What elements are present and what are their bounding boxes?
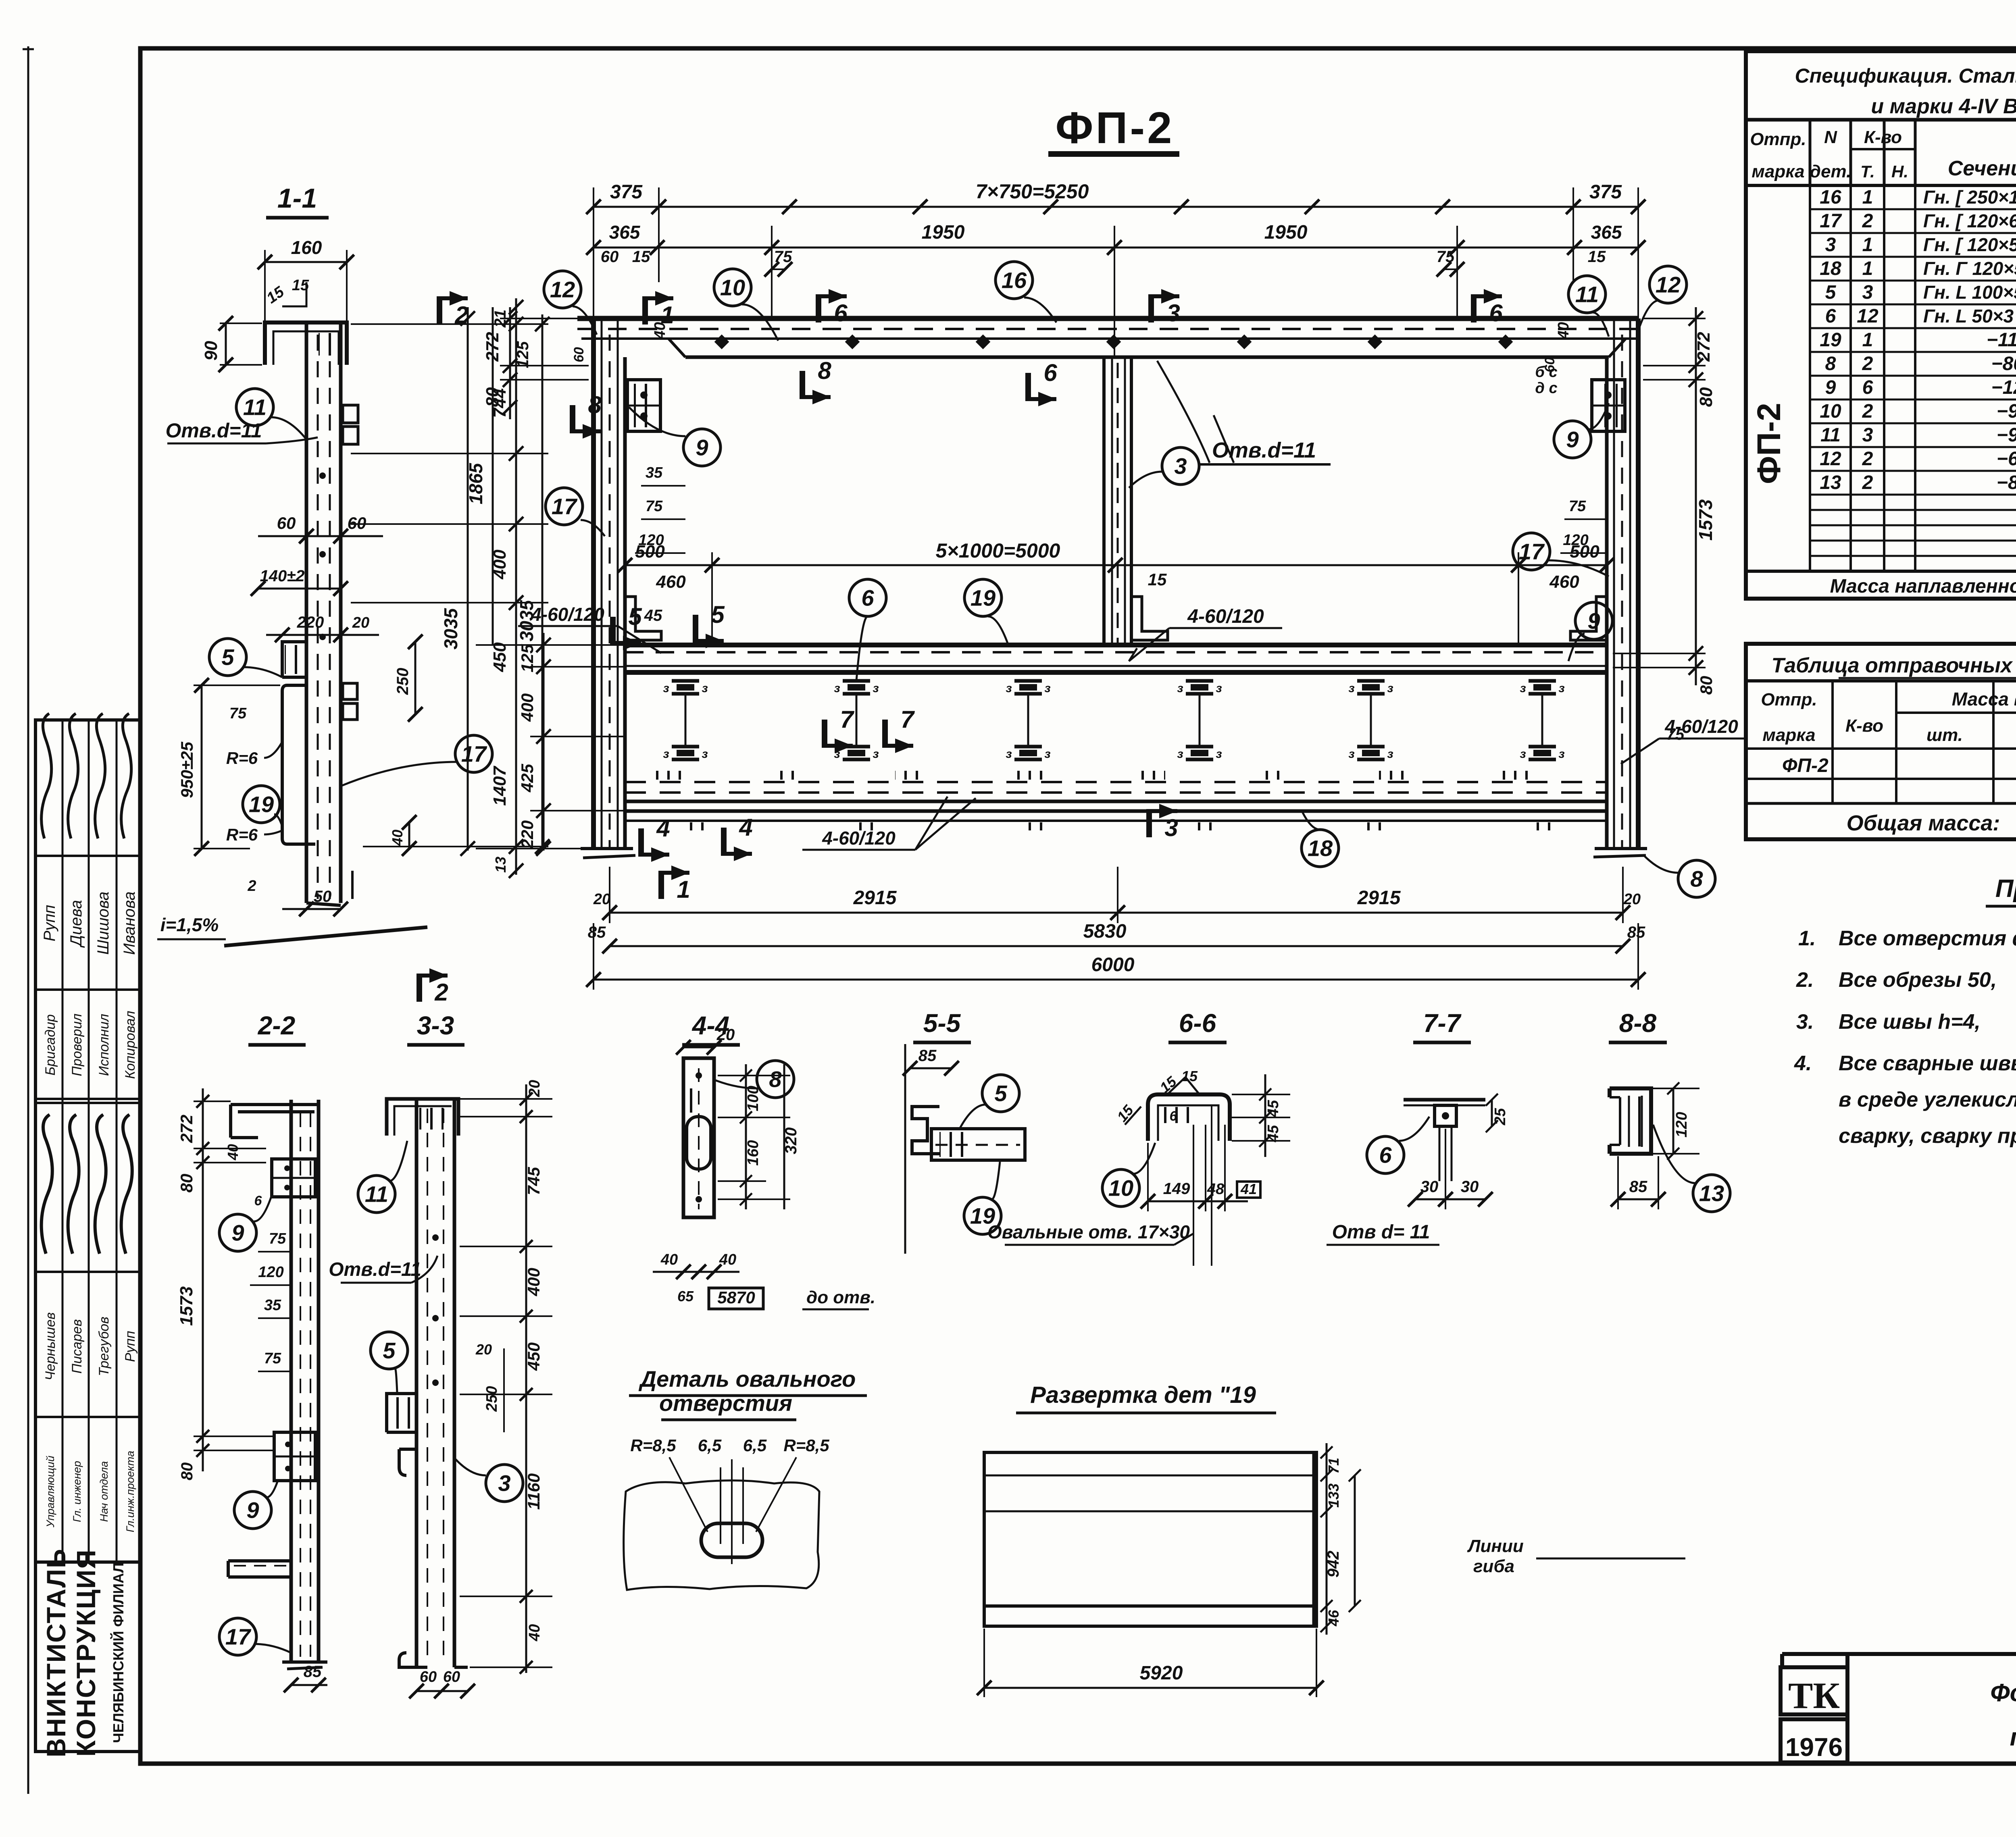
svg-text:25: 25 bbox=[1492, 1108, 1509, 1126]
svg-text:11: 11 bbox=[1820, 424, 1841, 446]
svg-text:220: 220 bbox=[518, 820, 537, 849]
svg-text:до отв.: до отв. bbox=[806, 1288, 875, 1307]
svg-text:Бригадир: Бригадир bbox=[43, 1014, 58, 1076]
svg-text:Фонарная панель ФП-2: Фонарная панель ФП-2 bbox=[1990, 1679, 2016, 1707]
rivet marks on top chord bbox=[714, 335, 729, 350]
right post top angle bbox=[1570, 597, 1607, 640]
spec row 18 bbox=[1810, 280, 2016, 282]
svg-text:Писарев: Писарев bbox=[69, 1319, 85, 1373]
svg-text:2: 2 bbox=[434, 979, 448, 1006]
right dim chain bbox=[1695, 307, 1697, 685]
bolted plate right post bbox=[1592, 380, 1625, 431]
svg-text:3: 3 bbox=[1825, 234, 1836, 256]
balloon 17 right bbox=[1513, 533, 1550, 570]
s1-1 dim 950 bbox=[201, 685, 203, 849]
oval detail blob bbox=[624, 1481, 819, 1590]
s1-1 top hat flange pos.11 bbox=[265, 322, 347, 365]
s3-3 bottom foot bbox=[399, 1653, 468, 1667]
left dim chain 125/400/425/220 bbox=[543, 633, 545, 851]
balloon 16 bbox=[996, 262, 1033, 299]
svg-text:7: 7 bbox=[840, 706, 854, 733]
svg-text:71: 71 bbox=[1325, 1458, 1342, 1474]
svg-text:2: 2 bbox=[1862, 353, 1873, 374]
svg-text:4-60/120: 4-60/120 bbox=[1187, 606, 1264, 627]
svg-text:20: 20 bbox=[352, 614, 369, 631]
balloon 6 bbox=[849, 579, 886, 616]
stamp signature row2 col3 bbox=[95, 1115, 106, 1254]
svg-text:40: 40 bbox=[1555, 322, 1572, 339]
right post (pos.17) bbox=[1636, 318, 1641, 849]
svg-text:5870: 5870 bbox=[717, 1288, 755, 1307]
stamp signature row1 col3 bbox=[95, 714, 105, 838]
svg-text:1: 1 bbox=[1862, 234, 1873, 256]
svg-text:Отпр.: Отпр. bbox=[1761, 690, 1817, 709]
s1-1 dim 50 bbox=[282, 908, 341, 910]
section mark 3 bottom bbox=[1146, 809, 1152, 837]
svg-text:ФП-2: ФП-2 bbox=[1782, 755, 1829, 776]
s8-8 channel bbox=[1610, 1088, 1651, 1154]
svg-text:3: 3 bbox=[1174, 454, 1187, 479]
razvertka right dims bbox=[1326, 1443, 1328, 1635]
section marks 4 bbox=[638, 828, 644, 857]
svg-text:гиба: гиба bbox=[1473, 1556, 1514, 1576]
svg-text:30: 30 bbox=[1461, 1178, 1479, 1196]
svg-text:400: 400 bbox=[524, 1268, 543, 1296]
svg-text:5830: 5830 bbox=[1083, 921, 1127, 942]
s1-1 vertical member pos.17 bbox=[305, 322, 308, 903]
svg-text:з: з bbox=[1044, 747, 1050, 761]
svg-text:8: 8 bbox=[818, 357, 831, 384]
svg-text:40: 40 bbox=[719, 1251, 736, 1268]
svg-text:6: 6 bbox=[254, 1193, 262, 1209]
section mark 1 bottom bbox=[658, 871, 664, 899]
svg-text:R=8,5: R=8,5 bbox=[783, 1436, 829, 1455]
svg-text:6,5: 6,5 bbox=[698, 1436, 722, 1455]
balloon 19 bbox=[964, 579, 1002, 616]
svg-text:80: 80 bbox=[177, 1174, 196, 1193]
s3-3 top hat bbox=[387, 1099, 458, 1136]
top dim tier2 1950 bbox=[594, 247, 1638, 249]
centre post base angle bbox=[1131, 597, 1168, 640]
s3-3 right dim chain bbox=[525, 1084, 527, 1673]
svg-text:10: 10 bbox=[1108, 1175, 1133, 1201]
svg-text:6-6: 6-6 bbox=[1179, 1009, 1216, 1038]
svg-text:i=1,5%: i=1,5% bbox=[160, 914, 219, 935]
s1-1 bracket pos.5 bbox=[282, 642, 306, 677]
svg-text:з: з bbox=[1558, 747, 1564, 761]
svg-text:1407: 1407 bbox=[490, 766, 510, 806]
svg-text:17: 17 bbox=[461, 741, 487, 767]
svg-text:Чернышев: Чернышев bbox=[43, 1312, 58, 1380]
spec row 12 bbox=[1810, 470, 2016, 472]
svg-text:ЧЕЛЯБИНСКИЙ ФИЛИАЛ: ЧЕЛЯБИНСКИЙ ФИЛИАЛ bbox=[110, 1562, 127, 1743]
svg-text:Масса наплавленного металла 1%: Масса наплавленного металла 1% bbox=[1830, 576, 2016, 597]
s1-1 dim 220/20 bbox=[266, 634, 379, 636]
svg-text:5: 5 bbox=[628, 603, 642, 630]
middle rail (pos.19) bbox=[625, 643, 1607, 647]
svg-text:сварку, сварку производить эле: сварку, сварку производить электродами т… bbox=[1839, 1124, 2016, 1148]
s2-2 clip 2 bbox=[274, 1432, 315, 1481]
svg-text:2: 2 bbox=[454, 302, 468, 329]
TK logo box bbox=[1781, 1667, 1847, 1714]
section mark 1 top bbox=[642, 296, 648, 325]
title block bbox=[1782, 1652, 2016, 1656]
svg-text:18: 18 bbox=[1308, 836, 1333, 861]
s6-6 channel bbox=[1148, 1094, 1230, 1141]
svg-text:з: з bbox=[702, 747, 708, 761]
svg-text:450: 450 bbox=[490, 642, 510, 672]
svg-text:120: 120 bbox=[1673, 1112, 1690, 1137]
s6-6 dims right 45/45 bbox=[1264, 1074, 1266, 1157]
bottom chord (pos.18) bbox=[625, 800, 1607, 803]
svg-text:Шишова: Шишова bbox=[94, 892, 112, 955]
svg-text:375: 375 bbox=[1589, 181, 1622, 203]
svg-text:75: 75 bbox=[646, 498, 663, 515]
svg-text:R=8,5: R=8,5 bbox=[630, 1436, 676, 1455]
svg-text:б с: б с bbox=[1535, 364, 1557, 381]
s2-2 left dim chain bbox=[202, 1088, 204, 1471]
section marks 5 bbox=[610, 617, 616, 645]
svg-text:85: 85 bbox=[918, 1047, 937, 1065]
svg-text:в среде углекислого газа; в сл: в среде углекислого газа; в случае перех… bbox=[1839, 1088, 2016, 1111]
svg-text:15: 15 bbox=[632, 248, 650, 266]
svg-text:4.: 4. bbox=[1794, 1052, 1812, 1075]
svg-text:400: 400 bbox=[518, 693, 537, 722]
svg-text:3-3: 3-3 bbox=[417, 1011, 454, 1040]
svg-text:отверстия: отверстия bbox=[659, 1390, 792, 1416]
bolted plate left post bbox=[627, 380, 660, 431]
svg-text:942: 942 bbox=[1325, 1551, 1342, 1578]
spec row 17 bbox=[1810, 232, 2016, 234]
svg-text:з: з bbox=[1520, 682, 1526, 695]
svg-text:6: 6 bbox=[1170, 1109, 1178, 1124]
svg-text:90: 90 bbox=[201, 341, 221, 360]
svg-text:з: з bbox=[663, 682, 669, 695]
svg-text:Развертка дет "19: Развертка дет "19 bbox=[1030, 1382, 1256, 1408]
svg-text:5: 5 bbox=[221, 645, 234, 670]
svg-text:ФП-2: ФП-2 bbox=[1751, 403, 1787, 484]
svg-text:75: 75 bbox=[264, 1350, 281, 1367]
svg-text:Деталь овального: Деталь овального bbox=[639, 1366, 856, 1392]
balloon 18 bbox=[1302, 830, 1339, 867]
svg-text:1: 1 bbox=[1862, 258, 1873, 279]
s2-2 top flange bbox=[231, 1105, 320, 1138]
left post top angle pos.5 bbox=[625, 597, 661, 640]
svg-text:12: 12 bbox=[1857, 306, 1879, 327]
section marks 7 bbox=[822, 720, 827, 748]
svg-text:10: 10 bbox=[1820, 401, 1841, 422]
svg-text:460: 460 bbox=[1549, 572, 1579, 592]
svg-text:2: 2 bbox=[1862, 472, 1873, 493]
s1-1 section marks 2 bbox=[437, 296, 442, 325]
svg-text:Гл.инж.проекта: Гл.инж.проекта bbox=[124, 1451, 136, 1532]
s5-5 dims bbox=[910, 1067, 952, 1069]
svg-text:3: 3 bbox=[1862, 424, 1873, 446]
clip at 2550,1705 bbox=[1014, 679, 1042, 683]
svg-text:80: 80 bbox=[178, 1463, 196, 1481]
s1-1 clips right bbox=[343, 405, 358, 423]
svg-text:марка: марка bbox=[1762, 725, 1815, 745]
svg-text:18: 18 bbox=[1820, 258, 1841, 279]
svg-text:Проверил: Проверил bbox=[69, 1013, 85, 1076]
svg-text:500: 500 bbox=[1570, 542, 1599, 562]
stamp signature row2 col1 bbox=[42, 1115, 52, 1254]
spec row 11 bbox=[1810, 446, 2016, 448]
svg-text:50: 50 bbox=[314, 888, 332, 905]
svg-text:з: з bbox=[834, 682, 840, 695]
svg-text:6: 6 bbox=[1862, 377, 1873, 398]
svg-text:з: з bbox=[1177, 747, 1183, 761]
svg-text:9: 9 bbox=[1825, 377, 1836, 398]
clip at 1700,1868 bbox=[672, 745, 699, 749]
svg-text:425: 425 bbox=[518, 764, 537, 793]
svg-text:Общая масса:: Общая масса: bbox=[1847, 811, 2000, 835]
svg-text:9: 9 bbox=[696, 435, 708, 460]
svg-text:6000: 6000 bbox=[1091, 954, 1135, 976]
s2-2 balloons bbox=[219, 1214, 256, 1251]
svg-text:19: 19 bbox=[971, 585, 996, 611]
svg-text:6: 6 bbox=[1489, 300, 1503, 327]
svg-text:з: з bbox=[702, 682, 708, 695]
left post (pos.17) bbox=[591, 318, 596, 849]
svg-text:160: 160 bbox=[291, 237, 322, 258]
spec row 19 bbox=[1810, 351, 2016, 353]
shipping marks and weld tables bbox=[1746, 644, 2016, 839]
s8-8 dims bbox=[1672, 1088, 1674, 1154]
svg-text:5: 5 bbox=[711, 601, 725, 628]
svg-text:40: 40 bbox=[660, 1251, 678, 1268]
svg-text:60: 60 bbox=[348, 514, 367, 533]
svg-text:11: 11 bbox=[365, 1182, 388, 1207]
svg-text:80: 80 bbox=[1697, 676, 1716, 695]
svg-text:Копировал: Копировал bbox=[123, 1011, 138, 1079]
svg-text:20: 20 bbox=[475, 1341, 492, 1358]
svg-text:272: 272 bbox=[177, 1115, 196, 1143]
svg-text:з: з bbox=[1216, 682, 1222, 695]
clip at 3400,1705 bbox=[1357, 679, 1385, 683]
balloon 8 right bbox=[1678, 860, 1715, 897]
svg-text:140±2: 140±2 bbox=[260, 567, 305, 585]
section mark 6 mid bbox=[1025, 373, 1031, 401]
stamp signature row1 col2 bbox=[68, 714, 78, 838]
svg-text:Гн. L 100×5: Гн. L 100×5 bbox=[1923, 282, 2016, 303]
left dim chain 1865/3035 bbox=[492, 307, 494, 645]
svg-text:85: 85 bbox=[304, 1663, 322, 1681]
svg-text:5×1000=5000: 5×1000=5000 bbox=[936, 539, 1060, 562]
svg-text:160: 160 bbox=[745, 1140, 762, 1165]
svg-text:1.: 1. bbox=[1798, 927, 1816, 950]
svg-text:2-2: 2-2 bbox=[258, 1011, 296, 1040]
svg-text:з: з bbox=[663, 747, 669, 761]
svg-text:Все обрезы 50,: Все обрезы 50, bbox=[1839, 968, 1997, 992]
svg-text:11: 11 bbox=[243, 395, 267, 420]
spec row 8 bbox=[1810, 375, 2016, 377]
clip at 1700,1705 bbox=[672, 679, 699, 683]
svg-text:Отпр.: Отпр. bbox=[1750, 129, 1806, 149]
svg-text:з: з bbox=[1216, 747, 1222, 761]
svg-text:220: 220 bbox=[297, 614, 324, 631]
svg-text:при шаге ферм 6 м: при шаге ферм 6 м bbox=[2010, 1723, 2016, 1751]
svg-text:з: з bbox=[1177, 682, 1183, 695]
clip at 2124,1705 bbox=[843, 679, 870, 683]
svg-text:15: 15 bbox=[1148, 570, 1167, 589]
right post base bbox=[1595, 847, 1647, 850]
svg-text:60: 60 bbox=[277, 514, 296, 533]
svg-text:40: 40 bbox=[526, 1624, 543, 1641]
s7-7 tee bbox=[1404, 1098, 1485, 1102]
svg-text:з: з bbox=[1520, 747, 1526, 761]
svg-text:8: 8 bbox=[1690, 866, 1703, 892]
s1-1 dim 140 bbox=[258, 588, 341, 590]
svg-text:950±25: 950±25 bbox=[177, 741, 196, 798]
s2-2 clip 1 bbox=[272, 1159, 315, 1197]
stamp signature row1 col4 bbox=[121, 714, 131, 838]
svg-text:ТК: ТК bbox=[1788, 1675, 1840, 1716]
svg-text:85: 85 bbox=[588, 924, 606, 941]
svg-text:4-60/120: 4-60/120 bbox=[1664, 716, 1738, 737]
svg-text:9: 9 bbox=[246, 1498, 259, 1523]
svg-text:1: 1 bbox=[1862, 187, 1873, 208]
svg-text:45: 45 bbox=[1265, 1125, 1282, 1142]
clip at 2550,1868 bbox=[1014, 745, 1042, 749]
svg-text:13: 13 bbox=[1820, 472, 1841, 493]
svg-text:6: 6 bbox=[861, 585, 874, 611]
svg-text:Иванова: Иванова bbox=[121, 891, 138, 955]
svg-text:3: 3 bbox=[498, 1471, 510, 1496]
svg-text:Масса в кг: Масса в кг bbox=[1952, 689, 2016, 709]
svg-text:Гн. [ 120×50×4: Гн. [ 120×50×4 bbox=[1923, 234, 2016, 255]
svg-text:5: 5 bbox=[1825, 282, 1837, 303]
bottom dim 5830 bbox=[610, 945, 1623, 947]
balloon 11 right bbox=[1568, 276, 1606, 313]
svg-text:Сечение: Сечение bbox=[1948, 157, 2016, 180]
spec row 9 bbox=[1810, 399, 2016, 401]
svg-text:Трегубов: Трегубов bbox=[96, 1317, 112, 1376]
s5-5 drawing bbox=[904, 1044, 906, 1254]
bottom dim 6000 bbox=[594, 979, 1638, 981]
svg-text:−90×8: −90×8 bbox=[1997, 401, 2016, 422]
svg-text:6: 6 bbox=[1379, 1142, 1392, 1168]
svg-text:2.: 2. bbox=[1796, 968, 1814, 992]
svg-text:5: 5 bbox=[383, 1338, 396, 1363]
s2-2 member bbox=[289, 1100, 293, 1662]
svg-text:1950: 1950 bbox=[922, 222, 965, 243]
svg-text:шт.: шт. bbox=[1926, 725, 1963, 745]
svg-text:45: 45 bbox=[644, 607, 662, 624]
s4-4 dims bbox=[683, 1046, 714, 1049]
weld table data row bbox=[1746, 778, 2016, 780]
svg-text:дет.: дет. bbox=[1810, 162, 1851, 181]
svg-text:20: 20 bbox=[716, 1026, 735, 1044]
svg-text:−80×12: −80×12 bbox=[1991, 353, 2016, 374]
mid dim 5x1000=5000 bbox=[625, 564, 1607, 566]
svg-text:60: 60 bbox=[601, 248, 619, 266]
svg-text:з: з bbox=[1387, 747, 1393, 761]
svg-text:ФП-2: ФП-2 bbox=[1056, 103, 1175, 153]
section mark 6 top l bbox=[816, 294, 821, 322]
svg-text:10: 10 bbox=[720, 275, 745, 300]
svg-text:8: 8 bbox=[588, 391, 602, 418]
svg-text:745: 745 bbox=[524, 1167, 543, 1195]
s3-3 lower hook bbox=[399, 1449, 417, 1475]
svg-text:КОНСТРУКЦИЯ: КОНСТРУКЦИЯ bbox=[71, 1549, 101, 1756]
svg-text:13: 13 bbox=[1699, 1181, 1724, 1206]
svg-text:R=6: R=6 bbox=[226, 749, 258, 768]
svg-text:марка: марка bbox=[1752, 162, 1804, 181]
bottom dashed stringer bbox=[625, 781, 1607, 783]
svg-text:−90×8: −90×8 bbox=[1997, 424, 2016, 446]
balloon 12 right bbox=[1649, 266, 1687, 303]
svg-text:12: 12 bbox=[1656, 272, 1681, 297]
svg-text:149: 149 bbox=[1163, 1180, 1190, 1198]
svg-text:1: 1 bbox=[660, 302, 674, 329]
svg-text:20: 20 bbox=[593, 891, 610, 908]
svg-text:125: 125 bbox=[518, 644, 537, 672]
s1-1 right chains bbox=[515, 298, 517, 875]
signature stamp sidebar bbox=[35, 720, 140, 1752]
svg-text:320: 320 bbox=[782, 1128, 800, 1155]
svg-text:1573: 1573 bbox=[1695, 499, 1716, 541]
spec row 10 bbox=[1810, 422, 2016, 424]
svg-text:375: 375 bbox=[610, 181, 643, 203]
svg-text:9: 9 bbox=[1566, 427, 1579, 452]
balloon 3 bbox=[1162, 447, 1199, 485]
svg-text:з: з bbox=[873, 747, 879, 761]
svg-text:4-60/120: 4-60/120 bbox=[822, 828, 896, 849]
svg-text:з: з bbox=[873, 682, 879, 695]
svg-text:−1192×4: −1192×4 bbox=[1987, 329, 2016, 351]
svg-text:35: 35 bbox=[646, 464, 663, 481]
svg-text:41: 41 bbox=[1240, 1181, 1257, 1197]
svg-text:Линии: Линии bbox=[1467, 1536, 1524, 1556]
svg-text:6: 6 bbox=[1043, 359, 1057, 386]
svg-text:19: 19 bbox=[1820, 329, 1841, 351]
s1-1 balloons bbox=[236, 389, 273, 426]
svg-text:80: 80 bbox=[1696, 387, 1716, 407]
svg-text:з: з bbox=[1348, 747, 1354, 761]
svg-text:3: 3 bbox=[1164, 814, 1178, 841]
svg-text:19: 19 bbox=[249, 792, 274, 817]
svg-text:д с: д с bbox=[1535, 380, 1557, 397]
s5-5 clip bracket bbox=[912, 1107, 939, 1154]
svg-text:9: 9 bbox=[231, 1220, 244, 1246]
svg-text:К-во: К-во bbox=[1864, 127, 1902, 147]
svg-text:75: 75 bbox=[229, 705, 247, 722]
spec row 6 bbox=[1810, 327, 2016, 329]
spec table grid bbox=[1746, 118, 2016, 122]
svg-text:1: 1 bbox=[677, 876, 690, 903]
svg-text:з: з bbox=[1006, 682, 1012, 695]
stamp signature row1 col1 bbox=[42, 714, 52, 838]
svg-text:30: 30 bbox=[1420, 1178, 1439, 1196]
svg-text:20: 20 bbox=[1623, 891, 1641, 908]
svg-text:365: 365 bbox=[609, 222, 641, 243]
svg-text:3: 3 bbox=[1166, 300, 1180, 327]
svg-text:60: 60 bbox=[420, 1668, 437, 1685]
svg-text:120: 120 bbox=[258, 1264, 283, 1281]
section mark 3 top bbox=[1148, 294, 1154, 322]
balloon 9 right bbox=[1554, 421, 1591, 458]
svg-text:Отв d= 11: Отв d= 11 bbox=[1332, 1221, 1430, 1243]
stamp signature row2 col2 bbox=[68, 1115, 79, 1254]
svg-text:100: 100 bbox=[745, 1086, 762, 1111]
s4-4 bottom dims bbox=[653, 1271, 739, 1273]
svg-text:272: 272 bbox=[1694, 332, 1714, 362]
razvertka rectangle bbox=[984, 1452, 1316, 1626]
svg-text:75: 75 bbox=[269, 1230, 286, 1247]
s3-3 balloons bbox=[358, 1175, 395, 1213]
svg-text:1-1: 1-1 bbox=[277, 183, 317, 214]
